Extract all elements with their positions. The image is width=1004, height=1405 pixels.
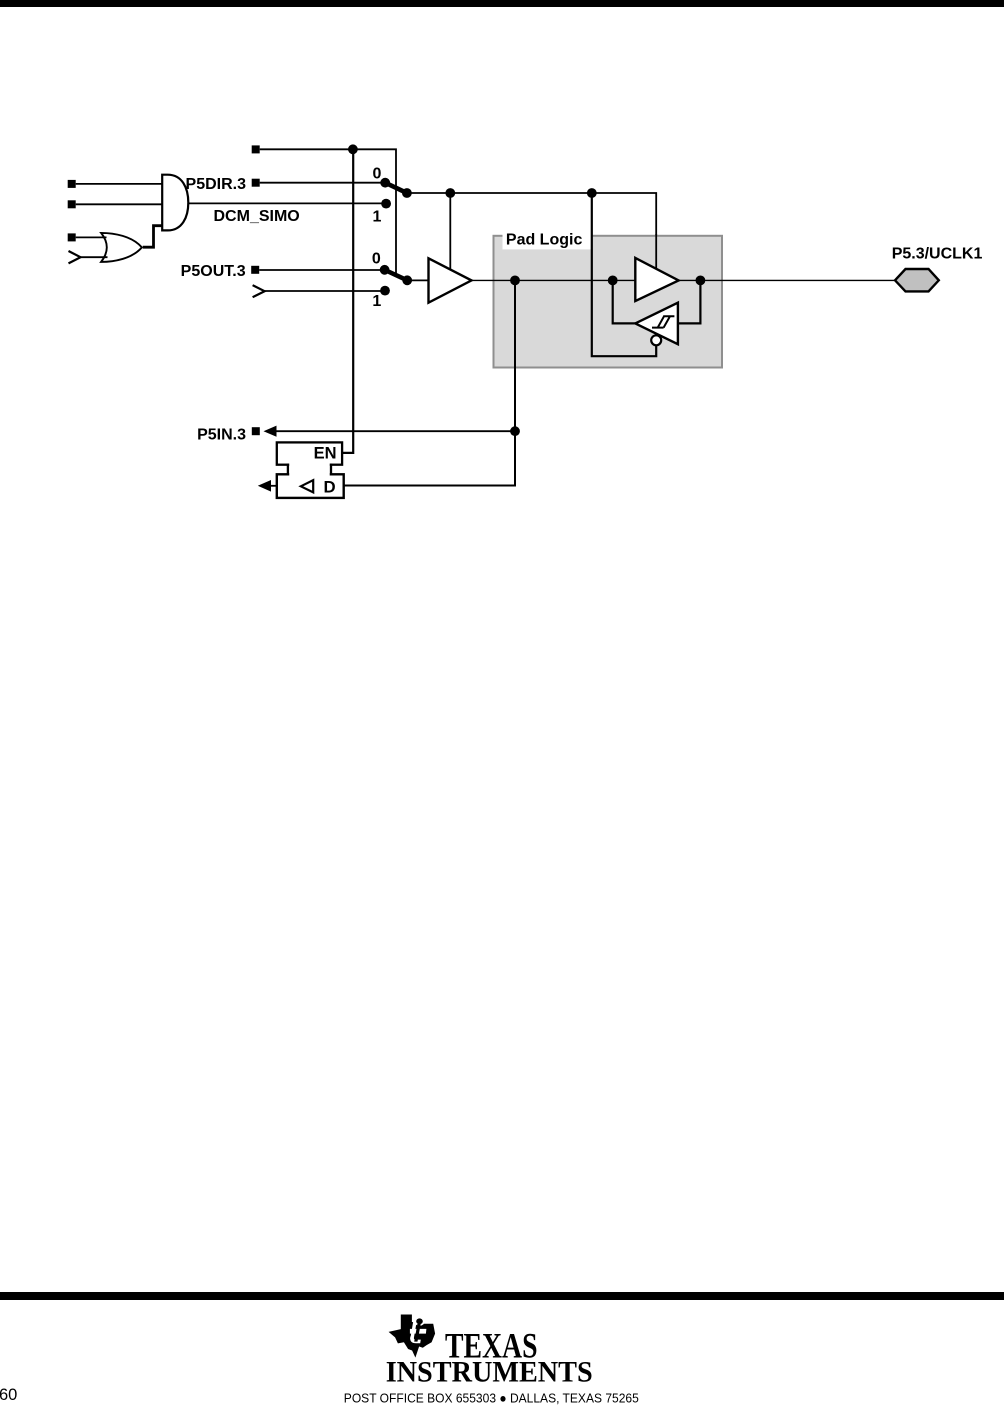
schmitt trigger U5 [635, 303, 678, 345]
wire module out to mux2-1 [265, 290, 385, 292]
mux2 switch arm [385, 270, 408, 281]
wire AND output DCM_SIMO to mux1-1 [187, 202, 387, 204]
node chevron module out [253, 285, 265, 297]
schmitt hysteresis glyph [652, 316, 674, 327]
svg-text:P5.3/UCLK1: P5.3/UCLK1 [892, 245, 983, 262]
wire direction row [407, 193, 656, 269]
junction dir/schmitt enable [587, 188, 597, 198]
svg-text:DCM_SIMO: DCM_SIMO [214, 208, 300, 225]
wire schmitt enable path [592, 193, 656, 356]
D latch box [277, 474, 344, 498]
buffer U3 [429, 258, 472, 302]
svg-text:P5IN.3: P5IN.3 [197, 427, 246, 444]
wire P5IN.3 row [274, 430, 515, 432]
node P5OUT.3 input pad [251, 266, 259, 274]
EN latch box [277, 442, 342, 464]
wire pad buffer enable (inside box) [655, 234, 657, 269]
wire P5OUT.3 to mux2-0 [259, 269, 384, 271]
svg-text:EN: EN [314, 445, 337, 463]
svg-text:1: 1 [372, 293, 381, 310]
svg-text:POST OFFICE BOX 655303 ● DALLA: POST OFFICE BOX 655303 ● DALLAS, TEXAS 7… [344, 1391, 639, 1405]
page number 60 [0, 1386, 17, 1405]
bottom black bar [0, 1292, 1004, 1300]
Pad Logic box [494, 236, 723, 368]
wire mux2 out to buffer [407, 279, 428, 281]
svg-text:1: 1 [373, 209, 382, 226]
svg-text:D: D [324, 478, 336, 497]
node P5DIR.3 input pad [252, 179, 260, 187]
wire OR input 1 [76, 236, 107, 238]
OR gate U2 [101, 233, 142, 262]
junction pad/P5IN tap [510, 276, 520, 286]
svg-text:0: 0 [372, 250, 381, 267]
svg-text:0: 0 [373, 165, 382, 182]
wire AND input A [76, 183, 163, 185]
node AND input pad A [68, 180, 76, 188]
TI logo symbol (Texas map with ti) [389, 1315, 436, 1358]
junction select/vertical [348, 144, 358, 154]
latch neck channel [289, 462, 330, 477]
wire P5DIR.3 to mux1-0 [260, 182, 386, 184]
pad buffer U4 [635, 258, 678, 301]
svg-text:INSTRUMENTS: INSTRUMENTS [386, 1356, 593, 1389]
wire schmitt out L [613, 280, 636, 323]
wire long vertical to EN [342, 149, 353, 453]
svg-text:P5DIR.3: P5DIR.3 [186, 176, 247, 193]
D latch clock triangle [301, 480, 313, 492]
wire P5IN tap vertical [343, 280, 515, 485]
node OR input pad [68, 233, 76, 241]
node P5IN.3 pad [252, 427, 260, 435]
wire buf1 enable drop [449, 193, 451, 271]
junction pad side [696, 276, 706, 286]
wire D output [269, 485, 277, 487]
wire OR input 2 [81, 256, 108, 258]
schmitt enable bubble [651, 335, 661, 345]
junction schmitt out [608, 276, 618, 286]
svg-text:P5OUT.3: P5OUT.3 [181, 263, 246, 280]
junction dir/buf1 enable [445, 188, 455, 198]
top black bar [0, 0, 1004, 7]
wire AND input B [76, 203, 163, 205]
junction P5IN row [510, 426, 520, 436]
mux1 switch arm [385, 183, 407, 193]
node AND input pad B [68, 200, 76, 208]
pad hexagon P5.3/UCLK1 [895, 269, 939, 291]
wire OR to AND connector [143, 226, 162, 248]
D output arrowhead [258, 480, 271, 492]
wire schmitt in L [678, 280, 701, 323]
node chevron input [69, 251, 81, 263]
P5IN.3 arrowhead [264, 426, 277, 437]
node P5SEL select: input pad square [252, 145, 260, 153]
AND gate U1 [162, 175, 188, 231]
wire select top line [260, 149, 396, 274]
wire main output row [472, 279, 896, 281]
Pad Logic label [503, 225, 592, 249]
svg-text:Pad Logic: Pad Logic [506, 232, 583, 249]
